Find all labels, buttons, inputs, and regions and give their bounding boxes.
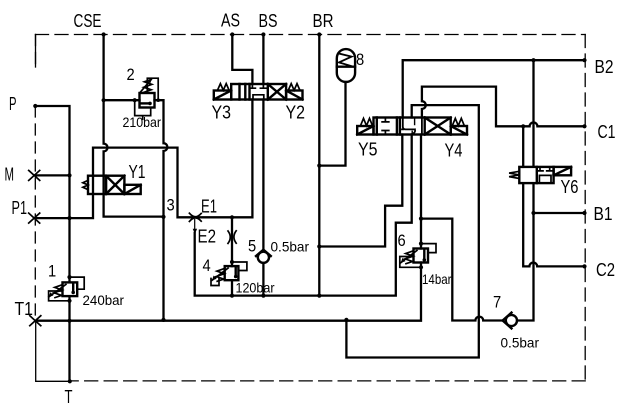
junction dot P1 line on P rail	[67, 216, 71, 220]
manifold border bottom-left solid	[36, 321, 70, 382]
relief valve 2 spring and adjust arrow	[143, 80, 152, 93]
junction dot CSE to valve2 branch	[102, 98, 106, 102]
junction dot C1 to Y6 branch	[521, 124, 525, 128]
wire B1 line	[534, 212, 585, 214]
wire check valve 7 feeder with hop over T-riser	[421, 219, 503, 321]
relief valve 4 drain loop	[211, 279, 219, 286]
junction dot C2 port at border	[582, 264, 586, 268]
Y5-Y4 left box flow lines and blocked centre	[377, 118, 397, 135]
svg-text:Y3: Y3	[212, 103, 232, 123]
wire accumulator branch	[319, 82, 345, 166]
port T1 plug cross	[30, 316, 41, 326]
port M plug cross	[29, 170, 40, 180]
junction dot valve1 drain loop join	[67, 299, 71, 303]
wire valve4 outlet to gallery	[231, 280, 233, 295]
accumulator 8 separator line	[337, 65, 355, 67]
relief valve 6 drain loop	[400, 257, 421, 268]
wire P1/Y1/E1 net: P1 port to Y1 top-left, across to E1 throttle line, up to Y3-Y2 left bottom port	[34, 100, 252, 219]
svg-text:Y5: Y5	[358, 140, 378, 160]
solenoid valve Y6 position boxes	[519, 167, 553, 183]
svg-text:14bar: 14bar	[422, 271, 452, 287]
wire Y3-Y2 right bottom port to check valve 5	[262, 100, 264, 250]
wire BS port to Y3-Y2 valve	[262, 35, 264, 85]
junction dot valve1 pilot tap	[67, 275, 71, 279]
junction dot BS at border	[261, 32, 265, 36]
svg-text:0.5bar: 0.5bar	[501, 335, 540, 351]
solenoid valve Y1 right position box with crossed ports	[106, 176, 124, 194]
port P1 plug cross	[29, 213, 40, 223]
relief valve 1 internal path	[72, 284, 74, 293]
wire T1 gallery to valve 6	[35, 263, 421, 321]
manifold dashed border left	[34, 35, 36, 321]
junction dot B2 port at border	[582, 58, 586, 62]
relief valve 6 internal path	[423, 250, 425, 260]
wire valve2 outlet drain: hop over Y1 top net, down to T1	[155, 100, 168, 320]
check valve 7 seat	[503, 313, 512, 329]
junction dot valve2 drain at T1	[161, 318, 165, 322]
check valve 7 ball	[506, 315, 517, 326]
svg-text:120bar: 120bar	[236, 280, 275, 296]
junction dot valve6 drain loop join	[419, 265, 423, 269]
relief valve 4 internal path	[234, 268, 236, 277]
wire Y6 right bottom riser to check valve 7 outlet	[517, 183, 534, 320]
svg-text:P: P	[9, 94, 17, 114]
relief valve 1 spring and adjust arrow	[54, 285, 63, 298]
junction dot T port at bottom border	[68, 379, 72, 383]
Y6 right box blocked ports	[537, 167, 553, 183]
wire AS port to Y3-Y2 valve	[232, 35, 252, 85]
solenoid valve Y1 body left position box	[88, 176, 106, 194]
svg-text:C1: C1	[598, 122, 616, 142]
Y3-Y2 centre box blocked ports	[249, 84, 266, 100]
manifold dashed border right	[584, 35, 586, 381]
junction dot C1 port at border	[582, 124, 586, 128]
wire valve2 inlet from CSE	[104, 99, 140, 101]
svg-text:CSE: CSE	[74, 11, 102, 31]
Y2 return spring	[288, 84, 300, 91]
relief valve 6 pilot loop	[421, 244, 436, 253]
Y4 return spring	[452, 118, 464, 125]
wire B2 branch down to Y6 right port	[532, 60, 534, 167]
junction dot CSE at border	[102, 32, 106, 36]
svg-text:Y2: Y2	[286, 103, 306, 123]
wire Y6 left bottom to C2 port with hop over B1 riser	[523, 183, 584, 266]
wire B2 net: Y5-Y4 A top port to B2 port	[403, 60, 585, 117]
wire valve4 feed from E1 line	[231, 217, 233, 266]
junction dot P at border	[33, 104, 37, 108]
Y6 return spring	[509, 171, 519, 178]
junction dot check7 feeder tap	[419, 217, 423, 221]
manifold dashed border top	[36, 34, 586, 36]
wire Y5-Y4 P bottom port to valve 6	[420, 135, 422, 249]
svg-text:240bar: 240bar	[83, 292, 125, 308]
relief valve 4 body	[225, 266, 239, 280]
junction dot net-B with valve2 drain	[161, 215, 165, 219]
junction dot valve4 feed on E1 line	[230, 215, 234, 219]
svg-text:C2: C2	[596, 260, 615, 280]
svg-text:7: 7	[493, 293, 501, 312]
relief valve 2 body	[140, 93, 155, 108]
accumulator 8 shell	[337, 49, 355, 82]
svg-text:T: T	[65, 387, 73, 407]
relief valve 4 spring and adjust arrow	[216, 268, 225, 281]
Y3 solenoid box	[214, 91, 231, 100]
Y4 solenoid box	[451, 126, 467, 135]
wire Y5-Y4 A-port staircase to BR rail	[319, 135, 402, 247]
junction dot T1 line crossing valve1 outlet	[67, 319, 71, 323]
junction dot AS at border	[230, 32, 234, 36]
svg-text:T1: T1	[15, 299, 34, 319]
svg-text:3: 3	[167, 196, 175, 215]
relief valve 1 body	[63, 282, 78, 296]
svg-text:E2: E2	[198, 227, 217, 247]
relief valve 6 spring and adjust arrow	[405, 251, 414, 264]
junction dot B1 line tap	[531, 211, 535, 215]
svg-text:Y1: Y1	[129, 162, 146, 182]
Y5 return spring	[361, 118, 373, 125]
Y5 solenoid box	[357, 126, 373, 135]
svg-text:0.5bar: 0.5bar	[271, 239, 310, 255]
solenoid valve Y1 solenoid box	[124, 185, 140, 194]
junction dot valve2 drain loop tap	[133, 98, 137, 102]
svg-text:210bar: 210bar	[123, 114, 162, 130]
svg-text:2: 2	[127, 65, 135, 84]
accumulator 8 spring	[339, 54, 352, 67]
junction dot valve4 pilot tap	[230, 260, 234, 264]
junction dot valve2 pilot at outlet	[156, 98, 160, 102]
svg-text:8: 8	[356, 50, 364, 69]
relief valve 6 body	[414, 249, 429, 263]
throttle 3 on E1 line	[189, 213, 201, 221]
junction dot valve6 pilot tap	[419, 242, 423, 246]
svg-text:6: 6	[398, 231, 406, 250]
wire valve1 outlet to T port	[68, 296, 70, 381]
Y3 return spring	[218, 84, 230, 91]
solenoid valve Y1 return spring	[83, 180, 88, 189]
relief valve 2 pilot loop	[147, 78, 158, 100]
wire C1 branch down to Y6 left port	[522, 126, 524, 167]
wire CSE line: from border down, hop over Y1 top net, through Y1 left position, to net-B junction	[104, 35, 164, 217]
Y3-Y2 right box crossed ports	[268, 84, 286, 100]
svg-text:B1: B1	[594, 204, 613, 224]
Y2 solenoid box	[286, 91, 302, 100]
svg-text:M: M	[5, 165, 15, 185]
wire P port to P rail	[35, 106, 69, 282]
Y5-Y4 right box crossed ports	[425, 118, 451, 135]
svg-text:B2: B2	[595, 57, 614, 77]
svg-text:Y6: Y6	[561, 177, 579, 197]
junction dot M line on P rail	[67, 173, 71, 177]
junction dot check5 outlet at gallery	[261, 294, 265, 298]
svg-text:P1: P1	[12, 198, 28, 218]
wire BR line: border to drain gallery	[318, 35, 320, 296]
svg-text:1: 1	[48, 262, 56, 281]
solenoid valve Y3-Y2 position boxes	[231, 84, 286, 100]
junction dot BR rail staircase branch	[317, 244, 321, 248]
relief valve 1 pilot loop	[70, 277, 85, 289]
wire drain gallery E2 riser to Y5-Y4 T port	[194, 220, 196, 234]
svg-text:Y4: Y4	[445, 141, 463, 161]
junction dot BR at border	[317, 32, 321, 36]
Y6 solenoid box	[554, 167, 572, 175]
svg-text:BS: BS	[259, 11, 278, 31]
svg-text:E1: E1	[201, 197, 217, 217]
relief valve 2 internal path	[141, 102, 150, 104]
relief valve 1 drain loop	[49, 291, 70, 301]
junction dot T1 branch riser	[344, 318, 348, 322]
solenoid valve Y5-Y4 position boxes	[374, 118, 451, 135]
svg-text:5: 5	[248, 237, 256, 256]
check valve 5 seat	[256, 250, 271, 256]
svg-text:AS: AS	[221, 11, 240, 31]
junction dot BR rail accumulator branch	[317, 164, 321, 168]
junction dot B2 branch	[531, 58, 535, 62]
check valve 5 ball	[258, 252, 269, 263]
junction dot B1 port at border	[582, 211, 586, 215]
relief valve 2 drain loop	[135, 100, 151, 119]
svg-text:4: 4	[203, 256, 211, 275]
junction dot BR rail at gallery	[317, 294, 321, 298]
Y5-Y4 centre box regenerative paths	[402, 118, 422, 135]
Y3-Y2 left box flow lines	[240, 84, 246, 100]
throttle on valve4 feed	[228, 231, 236, 244]
throttle E2 arrow	[193, 229, 197, 234]
junction dot valve4 outlet at gallery	[230, 294, 234, 298]
wire C1 net: Y5-Y4 P top port, hop over T-riser line, to C1 port with hop over B2 branch	[422, 87, 585, 127]
svg-text:BR: BR	[313, 11, 334, 31]
wire M line	[34, 174, 69, 176]
relief valve 4 pilot loop	[232, 262, 247, 271]
manifold dashed border bottom	[70, 380, 585, 382]
wire check valve 5 outlet to drain gallery	[262, 263, 264, 296]
wire T1 branch to Y5-Y4 mid top port via right riser	[346, 105, 478, 357]
